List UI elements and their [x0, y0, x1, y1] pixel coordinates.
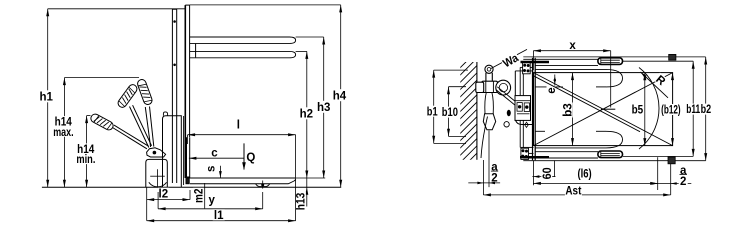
dimension m2	[204, 183, 206, 208]
turning radius arc	[639, 68, 659, 150]
load center dash	[601, 108, 615, 110]
tiller arm mid	[130, 107, 149, 148]
leg bottom bold section	[520, 156, 549, 158]
tiller handle mid	[116, 83, 138, 109]
dimension c	[189, 157, 244, 159]
label h14 max.	[54, 116, 73, 127]
svg-text:(l6): (l6)	[578, 169, 592, 181]
svg-text:(b12): (b12)	[661, 105, 681, 117]
extension line fork tip	[295, 135, 297, 221]
label b2	[700, 104, 712, 115]
label b3	[562, 103, 573, 118]
svg-text:y: y	[208, 194, 215, 206]
dimension b3	[572, 73, 574, 146]
wheel center mark	[150, 175, 165, 177]
svg-text:60: 60	[542, 167, 554, 179]
mounting block bottom	[521, 148, 529, 159]
extension line Ast left	[482, 160, 484, 195]
svg-text:h1: h1	[39, 91, 53, 103]
dimension h14 min	[86, 116, 88, 188]
dimension x	[533, 50, 610, 52]
mast cross-section	[515, 96, 531, 121]
sensor dot	[507, 110, 511, 116]
lowered fork back	[186, 137, 188, 183]
svg-text:max.: max.	[53, 127, 73, 139]
straddle leg top	[523, 58, 598, 60]
drive unit outline	[514, 71, 516, 118]
tiller arm lowered	[113, 128, 147, 149]
label a/2 right	[679, 165, 688, 174]
tiller arm to body	[497, 87, 517, 104]
centering diamond	[525, 122, 529, 127]
pallet outline	[534, 73, 673, 146]
dimension h1	[47, 9, 49, 188]
clamp block bottom	[668, 157, 675, 164]
label h13	[295, 192, 306, 211]
fork bottom plan	[535, 147, 606, 149]
extension line fork face	[187, 135, 189, 144]
dimension b10	[448, 87, 450, 137]
dimension b5	[644, 73, 646, 146]
chassis body	[163, 116, 182, 188]
extension line load roller center	[262, 192, 264, 209]
svg-text:l1: l1	[214, 210, 224, 222]
lower raised fork	[190, 51, 296, 57]
dimension h13 arrow	[305, 187, 308, 195]
dimension h3	[323, 37, 325, 178]
dimension h2	[306, 51, 308, 206]
svg-text:m2: m2	[193, 189, 205, 204]
upper raised fork	[190, 37, 296, 43]
dimension b1	[433, 70, 435, 143]
label b5	[631, 104, 644, 115]
label b10	[441, 107, 458, 118]
dimension e	[554, 75, 556, 86]
dimension 60	[532, 160, 534, 185]
svg-text:b1: b1	[427, 106, 438, 118]
mast roller mid	[173, 64, 176, 67]
tiller column	[485, 73, 487, 81]
label h2	[300, 107, 313, 119]
label l1	[213, 209, 225, 220]
extension line mast top	[48, 8, 186, 10]
fork bottom tip	[606, 131, 623, 148]
lower fork shank	[195, 44, 197, 58]
svg-text:l2: l2	[159, 188, 169, 200]
dimension h4	[340, 5, 342, 187]
svg-text:e: e	[546, 87, 558, 93]
label e	[547, 86, 556, 96]
extension line l6 right	[657, 157, 659, 190]
tiller handle lowered	[89, 113, 114, 132]
caster wheel	[504, 122, 509, 127]
label h4	[333, 89, 346, 101]
tiller sweep outline	[481, 117, 488, 159]
steer line Wa	[491, 49, 527, 68]
svg-text:Ast: Ast	[565, 185, 581, 197]
label (l6)	[577, 168, 593, 179]
dimension l6	[533, 182, 657, 184]
load wheel center line	[610, 51, 612, 108]
leg top bold section	[521, 61, 550, 63]
svg-text:l: l	[237, 120, 240, 132]
load capacity arrow Q	[243, 143, 245, 169]
svg-text:x: x	[569, 40, 576, 52]
tiller neck	[485, 93, 486, 114]
svg-text:h3: h3	[317, 102, 330, 114]
mast roller top	[173, 20, 176, 23]
svg-text:b11: b11	[686, 104, 700, 116]
label a/2 left	[490, 162, 499, 171]
fork face	[532, 58, 534, 160]
load roller	[256, 184, 270, 187]
label 60	[541, 167, 552, 181]
label b11	[686, 104, 701, 115]
dimension a/2 right	[652, 183, 692, 185]
dimension Ast	[483, 194, 670, 196]
fork top plan	[535, 68, 606, 70]
tiller pivot base	[147, 148, 166, 157]
mounting block top	[523, 63, 531, 74]
svg-text:h13: h13	[296, 193, 308, 211]
svg-text:b3: b3	[562, 103, 574, 117]
load wheel top	[598, 58, 623, 65]
label y	[207, 194, 216, 205]
svg-text:b5: b5	[632, 105, 644, 117]
label l	[234, 119, 242, 130]
label h14 min.	[76, 143, 95, 154]
dimension h14 max	[63, 78, 65, 188]
label h1	[40, 90, 53, 102]
tiller base	[483, 114, 495, 130]
label R	[654, 73, 669, 88]
label Ast	[565, 185, 582, 196]
svg-text:2: 2	[680, 176, 686, 188]
extension line tiller lowered	[87, 115, 91, 117]
straddle leg bottom	[523, 157, 598, 159]
svg-text:c: c	[211, 148, 218, 160]
label h3	[317, 101, 330, 113]
fork carriage raised	[184, 5, 186, 178]
clamp block top	[669, 54, 676, 60]
dimension s	[219, 166, 221, 178]
tiller crossbar	[482, 81, 498, 92]
dimension y	[158, 208, 263, 210]
tiller pivot pin	[153, 151, 157, 155]
tiller handle raised	[136, 78, 153, 105]
extension line lowered fork top	[296, 177, 326, 179]
diagonal offset line e	[534, 76, 641, 132]
fork bottom inner edge	[535, 130, 545, 132]
pallet diagonal 1	[534, 73, 673, 146]
label b1	[426, 106, 438, 117]
load wheel bottom	[598, 151, 623, 158]
dimension l2	[147, 199, 190, 201]
load roller center line	[262, 181, 264, 189]
label (b12)	[660, 104, 681, 115]
dimension a/2 left	[468, 182, 500, 184]
extension line fork heel	[189, 190, 191, 200]
wall	[476, 62, 478, 160]
extension line lower fork	[296, 50, 307, 52]
svg-text:Q: Q	[246, 152, 255, 164]
mast outer rail	[183, 116, 185, 185]
ground line	[42, 186, 341, 188]
fork top inner edge	[535, 86, 563, 88]
extension line body rear	[488, 131, 490, 188]
svg-text:b10: b10	[442, 107, 458, 119]
svg-text:s: s	[206, 166, 218, 172]
svg-text:2: 2	[491, 172, 497, 184]
radius line R	[641, 72, 669, 98]
lowered fork blade	[187, 177, 295, 179]
label s	[206, 163, 216, 175]
svg-text:h4: h4	[333, 90, 347, 102]
dimension l	[188, 134, 296, 136]
drive wheel housing	[146, 159, 168, 187]
svg-text:b2: b2	[701, 104, 712, 116]
label Wa	[500, 51, 520, 69]
extension line carriage top	[190, 4, 341, 6]
tiller right knob	[496, 80, 511, 95]
svg-text:h2: h2	[300, 108, 313, 120]
dimension b2	[705, 57, 707, 161]
dimension b11	[692, 61, 694, 156]
drive wheel	[149, 182, 167, 187]
tiller left grip	[476, 82, 484, 92]
label x	[568, 40, 577, 50]
svg-text:min.: min.	[76, 154, 95, 166]
extension line wheel housing	[146, 187, 148, 220]
dimension b12	[671, 73, 674, 81]
mast	[171, 9, 173, 183]
extension line upper fork	[296, 36, 324, 38]
fork top tip	[606, 69, 623, 87]
label m2	[193, 188, 204, 204]
tiller head top knob	[485, 65, 493, 73]
tiller arm raised	[145, 107, 150, 147]
label c	[210, 147, 219, 157]
dimension l1	[147, 220, 296, 222]
label l2	[157, 188, 169, 199]
body tab	[163, 112, 167, 116]
chassis frame plan	[519, 67, 521, 147]
pallet diagonal 2	[534, 73, 673, 146]
extension line drive wheel center	[157, 192, 159, 209]
extension line a2 right	[670, 164, 672, 195]
extension line tiller raised	[64, 77, 139, 79]
